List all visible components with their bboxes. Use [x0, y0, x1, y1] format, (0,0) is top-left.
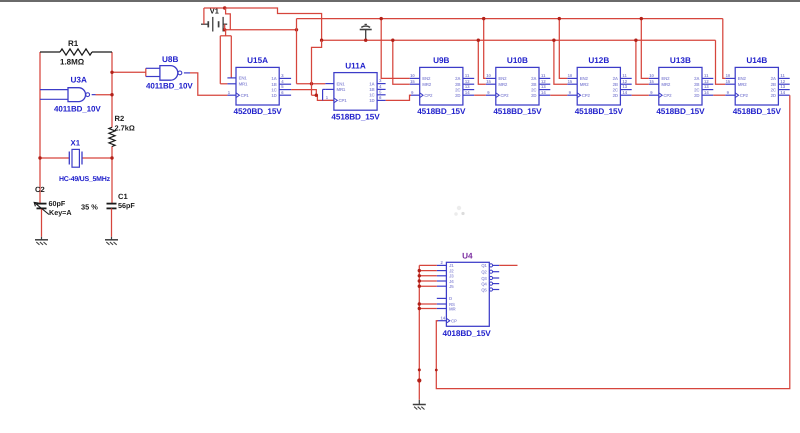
svg-text:2D: 2D [455, 93, 460, 98]
svg-text:MR: MR [449, 306, 456, 311]
svg-text:1B: 1B [369, 87, 374, 92]
svg-text:CP1: CP1 [241, 93, 250, 98]
wire rail C feed to U9B MR2 [393, 40, 410, 84]
svg-text:15: 15 [568, 79, 573, 84]
svg-text:14: 14 [541, 90, 546, 95]
svg-text:13: 13 [465, 84, 470, 89]
junction clock tangle [315, 94, 318, 97]
junction rail B at U12B [558, 17, 561, 20]
svg-text:MR2: MR2 [498, 82, 507, 87]
battery V1 [201, 17, 227, 32]
svg-text:U3A: U3A [71, 76, 87, 85]
svg-text:1B: 1B [271, 82, 276, 87]
svg-text:2B: 2B [455, 82, 460, 87]
IC U11A 4518BD_15V [325, 61, 385, 121]
svg-text:U12B: U12B [588, 56, 609, 65]
IC U13B 4518BD_15V [649, 56, 714, 116]
svg-text:CP2: CP2 [582, 93, 591, 98]
svg-text:35 %: 35 % [81, 203, 98, 212]
svg-text:C1: C1 [118, 192, 128, 201]
svg-text:4: 4 [281, 79, 284, 84]
svg-text:4011BD_10V: 4011BD_10V [54, 105, 101, 114]
wire rail B end feed to U14B EN2 [723, 19, 725, 79]
svg-text:Key=A: Key=A [49, 208, 72, 217]
svg-text:X1: X1 [71, 139, 81, 148]
svg-text:1C: 1C [271, 87, 277, 92]
wire jog from rail A down to rail D [224, 7, 227, 9]
svg-text:D: D [449, 296, 452, 301]
svg-text:U11A: U11A [345, 61, 366, 70]
junction U4 tie column lower [418, 302, 421, 305]
svg-text:MR2: MR2 [580, 82, 589, 87]
wire rail B feed to U12B EN2 [559, 19, 567, 79]
svg-text:U10B: U10B [507, 56, 528, 65]
svg-text:2D: 2D [531, 93, 536, 98]
svg-text:1A: 1A [271, 76, 277, 81]
svg-text:HC-49/US_5MHz: HC-49/US_5MHz [59, 175, 111, 183]
capacitor C1 56pF [107, 203, 117, 237]
svg-text:2C: 2C [613, 87, 619, 92]
wire right rail node B lower (below R2) [111, 146, 113, 203]
svg-text:EN2: EN2 [422, 76, 431, 81]
wire U10B 2D to U12B clock [550, 94, 567, 96]
svg-text:14: 14 [704, 90, 709, 95]
svg-text:2A: 2A [613, 76, 619, 81]
junction U4 tie column [418, 279, 421, 282]
svg-text:4518BD_15V: 4518BD_15V [331, 112, 380, 121]
svg-text:14: 14 [622, 90, 627, 95]
svg-text:1A: 1A [369, 81, 375, 86]
svg-text:4518BD_15V: 4518BD_15V [733, 107, 782, 116]
junction feedback column [435, 369, 438, 372]
svg-text:2: 2 [441, 260, 444, 265]
junction EN1 crossing [310, 82, 313, 85]
svg-text:U14B: U14B [746, 56, 767, 65]
svg-text:2C: 2C [455, 87, 461, 92]
junction U4 tie column big [417, 378, 421, 382]
svg-text:12: 12 [465, 79, 470, 84]
svg-text:9: 9 [569, 90, 572, 95]
svg-text:11: 11 [780, 73, 785, 78]
svg-text:MR2: MR2 [738, 82, 747, 87]
junction rail C start [320, 39, 323, 42]
svg-text:2B: 2B [531, 82, 536, 87]
wire rail C feed to U10B MR2 [478, 40, 486, 84]
junction rail C at U12B [552, 39, 555, 42]
junction rail D battery right terminal [223, 28, 226, 31]
wire rail C feed to U12B MR2 [554, 40, 567, 84]
svg-text:CP2: CP2 [424, 93, 433, 98]
svg-text:2B: 2B [771, 82, 776, 87]
svg-text:2C: 2C [531, 87, 537, 92]
wire rail C feed to U13B MR2 [636, 40, 649, 84]
svg-text:2D: 2D [613, 93, 618, 98]
IC U10B 4518BD_15V [486, 56, 551, 116]
wire U12B 2D to U13B clock [632, 94, 649, 96]
svg-text:4520BD_15V: 4520BD_15V [234, 107, 283, 116]
svg-text:1C: 1C [369, 93, 375, 98]
svg-text:11: 11 [622, 73, 627, 78]
wire U13B 2D to U14B clock [713, 94, 725, 96]
svg-text:56pF: 56pF [118, 201, 135, 210]
svg-text:2D: 2D [771, 93, 776, 98]
svg-text:R1: R1 [68, 39, 79, 48]
junction rail B at U13B [640, 17, 643, 20]
svg-text:2C: 2C [771, 87, 777, 92]
svg-text:1.8MΩ: 1.8MΩ [60, 58, 85, 67]
svg-text:2A: 2A [771, 76, 777, 81]
wire feedback U14B 2D to U4 clock [436, 95, 790, 388]
wire right rail node B (x=112) upper [111, 52, 113, 127]
svg-text:9: 9 [727, 90, 730, 95]
svg-text:4: 4 [379, 84, 382, 89]
svg-text:11: 11 [465, 73, 470, 78]
svg-text:4011BD_10V: 4011BD_10V [146, 82, 193, 91]
svg-text:14: 14 [465, 90, 470, 95]
svg-text:5: 5 [281, 84, 284, 89]
ground symbol on rail C [365, 30, 367, 40]
svg-text:Q1: Q1 [481, 263, 487, 268]
junction rail B at U9B [380, 17, 383, 20]
junction node B U8B feed [110, 71, 113, 74]
svg-text:6: 6 [281, 90, 284, 95]
svg-text:MR2: MR2 [422, 82, 431, 87]
svg-text:2D: 2D [694, 93, 699, 98]
wire clock tangle horizontal [312, 95, 334, 100]
svg-text:2C: 2C [694, 87, 700, 92]
svg-text:15: 15 [410, 79, 415, 84]
resistor R2 [109, 127, 115, 146]
svg-text:U8B: U8B [162, 55, 178, 64]
IC U12B 4518BD_15V [567, 56, 632, 116]
ground under C2 [41, 237, 43, 240]
wire rail A top [204, 8, 322, 40]
svg-text:2A: 2A [531, 76, 537, 81]
svg-text:14: 14 [780, 90, 785, 95]
svg-text:EN1: EN1 [239, 76, 248, 81]
wire rail D battery to U11A column [225, 29, 297, 31]
junction rail C at U13B [634, 39, 637, 42]
svg-text:EN2: EN2 [498, 76, 507, 81]
svg-text:11: 11 [541, 73, 546, 78]
svg-text:10: 10 [726, 73, 731, 78]
svg-text:CP: CP [451, 319, 457, 324]
svg-text:4518BD_15V: 4518BD_15V [417, 107, 466, 116]
wire rail B feed to U13B EN2 [641, 19, 649, 79]
crystal X1 HC-49/US_5MHz [40, 149, 112, 167]
svg-text:C2: C2 [35, 185, 45, 194]
svg-text:Q2: Q2 [481, 270, 487, 275]
svg-text:CP2: CP2 [500, 93, 509, 98]
svg-text:U15A: U15A [247, 56, 268, 65]
svg-text:R2: R2 [115, 114, 125, 123]
wire blue MR1 link [323, 89, 326, 100]
ground under U4 tie column [418, 400, 420, 405]
svg-text:9: 9 [411, 90, 414, 95]
svg-text:Q4: Q4 [481, 281, 487, 286]
svg-text:60pF: 60pF [49, 199, 66, 208]
svg-text:U13B: U13B [670, 56, 691, 65]
svg-text:13: 13 [780, 84, 785, 89]
svg-text:14: 14 [441, 315, 446, 320]
junction rail B at U10B [482, 17, 485, 20]
junction rail A above battery [223, 6, 226, 9]
svg-text:CP1: CP1 [339, 98, 348, 103]
wire U4 Q1 output stub [499, 264, 517, 266]
svg-text:1D: 1D [369, 98, 374, 103]
wire battery feed down to U15A EN/MR [220, 30, 231, 84]
svg-text:Q3: Q3 [481, 276, 487, 281]
op-amp U8B nand gate 4011BD_10V [146, 66, 190, 81]
IC U14B 4518BD_15V [725, 56, 790, 116]
svg-text:6: 6 [379, 95, 382, 100]
IC U15A 4520BD_15V [227, 56, 291, 116]
top border frame line [0, 0, 800, 2]
svg-text:10: 10 [568, 73, 573, 78]
wire U11A EN1 feed from rail B [297, 83, 326, 85]
svg-text:2A: 2A [455, 76, 461, 81]
svg-text:2.7kΩ: 2.7kΩ [115, 124, 135, 133]
svg-text:4518BD_15V: 4518BD_15V [493, 107, 542, 116]
junction U4 tie column [418, 285, 421, 288]
svg-text:U9B: U9B [433, 56, 449, 65]
svg-text:J5: J5 [449, 284, 454, 289]
resistor R1 [40, 49, 112, 55]
svg-text:CP2: CP2 [663, 93, 672, 98]
svg-text:5: 5 [379, 89, 382, 94]
junction U3A output at node B [110, 93, 113, 96]
wire left rail node A (x=40) [39, 52, 41, 203]
svg-text:11: 11 [704, 73, 709, 78]
svg-text:EN2: EN2 [661, 76, 670, 81]
junction node A crystal [38, 156, 41, 159]
svg-text:15: 15 [486, 79, 491, 84]
junction U4 tie column [418, 274, 421, 277]
svg-text:13: 13 [541, 84, 546, 89]
svg-text:15: 15 [726, 79, 731, 84]
wire rail B VDD [297, 19, 723, 84]
wire rail C end feed to U14B MR2 [716, 40, 726, 84]
wire rail B feed to U10B EN2 [484, 19, 486, 79]
junction rail C at U10B [477, 39, 480, 42]
wire U11A 1D output to U9B clock [386, 95, 411, 100]
junction rail C at U9B [391, 39, 394, 42]
svg-text:EN2: EN2 [738, 76, 747, 81]
wire rail B feed to U9B EN2 [381, 19, 410, 79]
wire battery left terminal up to rail A [203, 8, 205, 24]
svg-text:4518BD_15V: 4518BD_15V [575, 107, 624, 116]
svg-text:2A: 2A [694, 76, 700, 81]
svg-text:9: 9 [487, 90, 490, 95]
wire U15A 1C output to U11A clock [291, 90, 316, 96]
svg-text:U4: U4 [462, 252, 473, 261]
svg-text:MR1: MR1 [337, 87, 346, 92]
wire node B to U8B inputs [112, 68, 146, 76]
svg-text:15: 15 [649, 79, 654, 84]
wire rail C ground rail [322, 39, 716, 41]
svg-text:1D: 1D [271, 93, 276, 98]
wire U8B output to U15A clock [190, 73, 227, 95]
junction ground stem on rail C [364, 39, 367, 42]
svg-text:2B: 2B [613, 82, 618, 87]
svg-text:CP2: CP2 [740, 93, 749, 98]
capacitor C2 variable 60pF Key=A [34, 202, 49, 236]
svg-text:12: 12 [704, 79, 709, 84]
ground under C1 [111, 237, 113, 240]
junction U4 tie column [418, 269, 421, 272]
svg-text:10: 10 [649, 73, 654, 78]
svg-text:2B: 2B [694, 82, 699, 87]
svg-text:1: 1 [326, 95, 329, 100]
junction node B crystal [110, 156, 113, 159]
svg-text:10: 10 [410, 73, 415, 78]
svg-text:12: 12 [622, 79, 627, 84]
wire U9B 2D to U10B clock [474, 94, 486, 96]
svg-text:EN1: EN1 [337, 81, 346, 86]
svg-text:12: 12 [780, 79, 785, 84]
svg-text:4018BD_15V: 4018BD_15V [443, 329, 492, 338]
wire battery right terminal down to rail D [224, 24, 226, 30]
svg-text:1: 1 [228, 90, 231, 95]
artifact smudge [454, 206, 464, 216]
svg-text:13: 13 [622, 84, 627, 89]
IC U4 4018BD_15V [437, 260, 499, 326]
op-amp U3A nand gate 4011BD_10V [40, 88, 96, 102]
svg-text:MR2: MR2 [661, 82, 670, 87]
svg-text:4518BD_15V: 4518BD_15V [656, 107, 705, 116]
wire U3A output to node B [96, 94, 113, 96]
junction rail D at U11A column [295, 28, 298, 31]
svg-text:MR1: MR1 [239, 82, 248, 87]
IC U9B 4518BD_15V [410, 56, 475, 116]
svg-text:13: 13 [704, 84, 709, 89]
junction U4 tie column mid [418, 368, 421, 371]
svg-text:12: 12 [541, 79, 546, 84]
junction U4 tie column lower [418, 307, 421, 310]
svg-text:10: 10 [486, 73, 491, 78]
svg-text:Q5: Q5 [481, 287, 487, 292]
wire U4 jam inputs tie column [419, 265, 437, 399]
svg-text:9: 9 [650, 90, 653, 95]
wire rail C jog down to clock tangle [312, 40, 322, 95]
svg-text:3: 3 [281, 73, 284, 78]
svg-text:EN2: EN2 [580, 76, 589, 81]
